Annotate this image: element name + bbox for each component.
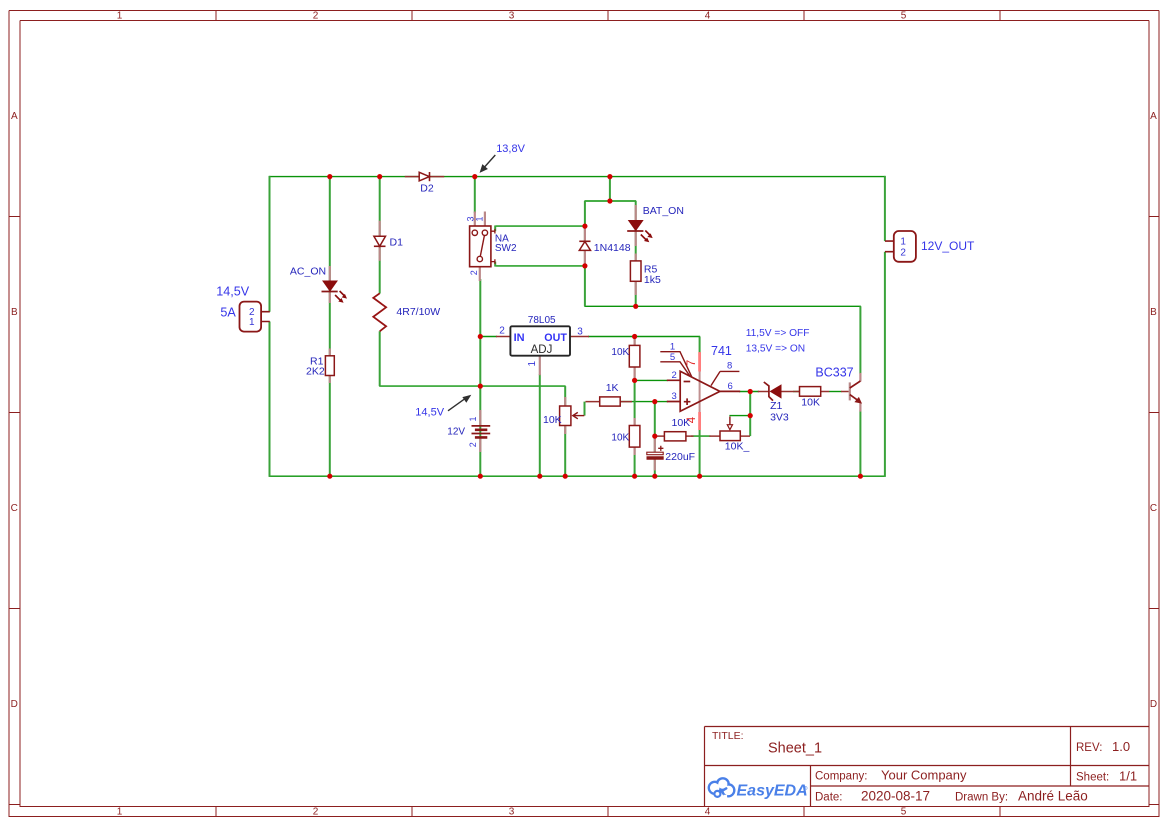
svg-text:EasyEDA: EasyEDA: [737, 783, 808, 800]
pin R1 bottom: [329, 376, 331, 384]
note 13,5V => ON: [746, 344, 805, 355]
wire SW2 right top horizontal: [495, 225, 586, 227]
svg-text:®: ®: [804, 785, 808, 792]
svg-text:A: A: [1150, 111, 1157, 122]
row letters left: [11, 111, 18, 710]
svg-text:D2: D2: [420, 183, 434, 195]
op-amp U2 741: [660, 342, 740, 431]
pin pot 10K leads: [564, 397, 566, 434]
node opamp out: [748, 389, 753, 394]
pin 10K_ pot leads: [709, 435, 750, 437]
svg-text:1: 1: [475, 216, 485, 221]
svg-text:2: 2: [469, 270, 479, 275]
svg-text:A: A: [11, 111, 18, 122]
wire sub bus 200: [584, 200, 636, 202]
svg-text:741: 741: [711, 344, 732, 358]
svg-text:1.0: 1.0: [1112, 739, 1130, 754]
node gnd emitter: [858, 474, 863, 479]
capacitor 220uF: [647, 446, 696, 463]
wire SW2 right bottom horizontal: [495, 265, 586, 267]
diode D1: [374, 236, 403, 248]
wire 1N4148 branch vertical: [584, 201, 586, 306]
node 13,8V: [472, 174, 477, 179]
pin BC337 emitter: [859, 402, 861, 411]
node cap top: [652, 434, 657, 439]
wire 10K chain vertical: [634, 337, 636, 477]
pin 10K base leads: [795, 391, 830, 393]
svg-text:2020-08-17: 2020-08-17: [861, 789, 930, 804]
wire AC_ON branch vertical: [329, 176, 331, 477]
svg-text:IN: IN: [514, 332, 525, 344]
svg-text:D: D: [1150, 699, 1157, 710]
svg-text:5A: 5A: [220, 305, 236, 319]
resistor 10K bottom: [611, 426, 639, 448]
net label 14,5V with arrow: [415, 396, 470, 419]
wire ADJ branch vertical: [539, 374, 541, 477]
svg-text:BAT_ON: BAT_ON: [643, 205, 684, 217]
pin 78L05 out: [570, 336, 589, 338]
regulator U 78L05: [499, 315, 583, 366]
pin BC337 base: [841, 391, 849, 393]
pin LED BAT_ON top: [635, 205, 637, 221]
svg-text:1: 1: [900, 237, 906, 248]
svg-text:1k5: 1k5: [644, 274, 661, 286]
pin battery 1: [479, 410, 481, 425]
resistor 4R7/10W zigzag: [373, 293, 440, 331]
svg-text:OUT: OUT: [544, 332, 567, 344]
pin battery 2: [479, 438, 481, 453]
svg-text:B: B: [11, 307, 18, 318]
pin SW2 1: [484, 212, 486, 229]
wire out down vertical: [749, 392, 751, 437]
node gnd pin4: [697, 474, 702, 479]
svg-text:3V3: 3V3: [770, 412, 789, 424]
resistor R1: [306, 356, 334, 378]
wire opamp pin2 horizontal: [634, 379, 668, 381]
wire 78L05 in horizontal: [480, 336, 497, 338]
resistor R5 1k5: [630, 261, 661, 286]
node gnd cap: [652, 474, 657, 479]
wire pin4 down vertical: [699, 429, 701, 477]
wire zener to 10K horizontal: [793, 391, 801, 393]
svg-text:1K: 1K: [606, 382, 619, 394]
diode D2: [419, 172, 434, 195]
wire SW2 bottom vertical: [479, 279, 481, 477]
pin R5 top: [635, 254, 637, 261]
svg-text:12V_OUT: 12V_OUT: [921, 239, 975, 253]
svg-text:D1: D1: [390, 237, 404, 249]
pin 78L05 in: [496, 336, 511, 338]
svg-text:2: 2: [672, 370, 677, 381]
svg-text:2: 2: [468, 442, 478, 447]
node gnd 10K: [632, 474, 637, 479]
pin LED AC_ON bottom: [329, 292, 331, 303]
node wiper: [748, 413, 753, 418]
wire SW2 step bottom vertical: [494, 262, 496, 267]
pin LED AC_ON top: [329, 266, 331, 282]
wire emitter down vertical: [859, 410, 861, 477]
svg-text:14,5V: 14,5V: [216, 284, 250, 298]
pin cap 220uF leads: [654, 437, 656, 470]
wire SW2 top vertical: [474, 176, 476, 213]
wire collector up vertical: [859, 306, 861, 374]
svg-text:10K: 10K: [611, 347, 629, 358]
node top bus AC_ON: [327, 174, 332, 179]
resistor 10K top: [611, 345, 639, 367]
connector P1 14,5V 5A: [216, 284, 269, 331]
svg-text:10K_: 10K_: [725, 441, 750, 453]
svg-text:REV:: REV:: [1076, 742, 1102, 754]
svg-text:10K: 10K: [611, 433, 629, 444]
svg-text:13,8V: 13,8V: [496, 143, 525, 155]
resistor 10K base: [800, 387, 821, 409]
svg-text:4: 4: [705, 807, 711, 818]
transistor Q1 BC337: [815, 366, 862, 404]
svg-text:BC337: BC337: [815, 366, 853, 380]
svg-text:10K: 10K: [672, 417, 691, 429]
svg-text:1: 1: [117, 807, 123, 818]
node R5 bottom: [633, 304, 638, 309]
wire D1 branch vertical: [379, 176, 381, 386]
battery 12V: [447, 416, 490, 447]
pin 1K leads: [586, 401, 633, 403]
pin 78L05 adj: [539, 356, 541, 375]
wire OUT corner down vertical: [699, 337, 701, 354]
node 78L05 in: [478, 334, 483, 339]
node sub bus: [607, 198, 612, 203]
svg-text:ADJ: ADJ: [531, 344, 553, 356]
pin SW2 3: [474, 212, 476, 229]
wires: [269, 177, 885, 477]
svg-text:AC_ON: AC_ON: [290, 266, 326, 278]
svg-text:4R7/10W: 4R7/10W: [396, 306, 440, 318]
wire cap branch vertical: [654, 402, 656, 477]
svg-text:14,5V: 14,5V: [415, 407, 444, 419]
svg-text:D: D: [11, 699, 18, 710]
svg-text:C: C: [1150, 503, 1157, 514]
wire pot branch vertical: [564, 386, 566, 477]
connector P2 12V_OUT: [885, 231, 975, 262]
pin LED BAT_ON bottom: [635, 232, 637, 247]
wire opamp out horizontal: [739, 391, 759, 393]
svg-text:Your Company: Your Company: [881, 768, 967, 783]
switch SW2: [465, 216, 517, 275]
svg-text:3: 3: [509, 11, 515, 22]
svg-text:5: 5: [670, 352, 675, 363]
svg-text:13,5V => ON: 13,5V => ON: [746, 344, 805, 355]
node top bus D1: [377, 174, 382, 179]
node gnd pot: [563, 474, 568, 479]
pin 10K top resistor leads: [633, 338, 635, 379]
svg-text:4: 4: [705, 11, 711, 22]
node 1N4148 top: [582, 224, 587, 229]
wire D1 to pot horizontal: [379, 385, 565, 387]
node top bus drop: [607, 174, 612, 179]
svg-text:2: 2: [313, 11, 319, 22]
TITLE BLOCK: [705, 727, 1150, 807]
svg-text:TITLE:: TITLE:: [712, 730, 744, 742]
row ticks left: [9, 217, 20, 805]
svg-text:Date:: Date:: [815, 792, 843, 804]
svg-text:Sheet:: Sheet:: [1076, 772, 1109, 784]
svg-text:220uF: 220uF: [665, 451, 695, 463]
potentiometer 10K left: [543, 406, 584, 426]
svg-text:Drawn By:: Drawn By:: [955, 792, 1008, 804]
svg-text:5: 5: [901, 11, 907, 22]
wire top bus: [269, 176, 885, 178]
svg-text:8: 8: [727, 360, 732, 371]
node opamp pin3: [652, 399, 657, 404]
wire bottom bus: [269, 475, 885, 477]
wire left bus vertical: [269, 176, 271, 477]
svg-text:2: 2: [499, 326, 505, 337]
svg-text:1/1: 1/1: [1119, 769, 1137, 784]
potentiometer 10K_: [720, 417, 749, 453]
pin D1 top: [379, 221, 381, 236]
svg-text:2K2: 2K2: [306, 366, 325, 378]
node gnd battery: [478, 474, 483, 479]
svg-text:2: 2: [900, 247, 906, 258]
JUNCTION DOTS: [327, 174, 863, 479]
svg-text:Company:: Company:: [815, 771, 867, 783]
svg-text:10K: 10K: [801, 397, 820, 409]
resistor 10K feedback: [664, 417, 690, 441]
svg-text:3: 3: [509, 807, 515, 818]
svg-text:78L05: 78L05: [528, 315, 556, 326]
pin 10K bottom resistor leads: [633, 418, 635, 455]
resistor 1K: [600, 382, 621, 406]
PINS horizontal (crisp dark leads): [405, 177, 849, 437]
note 11,5V => OFF: [746, 328, 810, 339]
row ticks right: [1149, 217, 1159, 805]
svg-text:10K: 10K: [543, 414, 562, 426]
net label 13,8V with arrow: [480, 143, 525, 172]
pin D2 cathode: [430, 176, 444, 178]
node 78L05 out: [632, 334, 637, 339]
column ticks top: [216, 11, 1000, 21]
wire wiper1 vertical: [584, 402, 586, 416]
pin D2 anode: [405, 176, 419, 178]
node 14,5V: [478, 384, 483, 389]
row letters right: [1150, 111, 1157, 710]
wire 78L05 out horizontal: [588, 336, 700, 338]
pin R5 bottom: [635, 281, 637, 295]
pin 10K horiz leads: [656, 435, 694, 437]
svg-text:1: 1: [468, 416, 478, 421]
pin Z1 leads: [758, 391, 795, 393]
node gnd AC_ON: [327, 474, 332, 479]
node opamp pin2: [632, 378, 637, 383]
svg-text:Z1: Z1: [770, 400, 782, 412]
wire 10K to base horizontal: [829, 391, 842, 393]
pin R1 top: [329, 349, 331, 356]
LED BAT_ON: [627, 205, 684, 242]
title block grid: [705, 727, 1150, 807]
wire wiper2 horizontal: [729, 415, 750, 417]
LED AC_ON: [290, 266, 347, 303]
wire BAT_ON branch vertical: [635, 201, 637, 306]
pin 1N4148 top: [584, 226, 586, 241]
column numbers bottom: [117, 807, 907, 818]
diode 1N4148: [579, 241, 630, 254]
svg-text:11,5V => OFF: 11,5V => OFF: [746, 328, 810, 339]
svg-text:7: 7: [686, 360, 698, 366]
PINS vertical (soft rose leads): [330, 205, 861, 471]
wire top drop vertical: [609, 176, 611, 201]
svg-text:1: 1: [527, 361, 538, 367]
wire SW2 step top vertical: [494, 226, 496, 232]
wire opamp pin3 horizontal: [618, 401, 668, 403]
pin SW2 2: [479, 267, 481, 281]
svg-text:André Leão: André Leão: [1018, 789, 1088, 804]
svg-text:SW2: SW2: [495, 243, 517, 254]
pin BC337 collector: [859, 373, 861, 382]
wire sub bus 306: [584, 305, 861, 307]
node 1N4148 bottom: [582, 263, 587, 268]
svg-text:1: 1: [249, 317, 255, 328]
pin 1N4148 bottom: [584, 250, 586, 266]
svg-text:3: 3: [672, 391, 677, 402]
svg-text:B: B: [1150, 307, 1157, 318]
node gnd adj: [537, 474, 542, 479]
svg-text:3: 3: [577, 327, 583, 338]
svg-text:6: 6: [728, 381, 733, 392]
svg-text:12V: 12V: [447, 426, 465, 437]
svg-text:C: C: [11, 503, 18, 514]
svg-text:1: 1: [117, 11, 123, 22]
svg-text:5: 5: [901, 807, 907, 818]
EasyEDA logo: [709, 778, 808, 799]
pin D1 bottom: [379, 246, 381, 260]
column ticks bottom: [216, 807, 1000, 817]
svg-text:Sheet_1: Sheet_1: [768, 741, 822, 757]
svg-text:2: 2: [313, 807, 319, 818]
column numbers top: [117, 11, 907, 22]
wire 10K to pot2 horizontal: [691, 435, 711, 437]
svg-text:1N4148: 1N4148: [594, 242, 631, 254]
wire right bus vertical: [884, 176, 886, 477]
zener Z1 3V3: [764, 382, 789, 424]
